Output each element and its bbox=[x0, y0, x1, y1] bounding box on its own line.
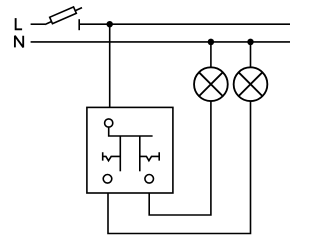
node N junction 1 bbox=[208, 39, 215, 46]
node L junction bbox=[107, 21, 113, 27]
wire N bus bbox=[31, 41, 290, 43]
switch S1 contact 2 bbox=[140, 152, 159, 161]
switch S1 blade 2 bbox=[139, 136, 141, 171]
lamp E1 bbox=[194, 67, 228, 101]
terminal S1 output 2 bbox=[145, 175, 154, 184]
switch S1 contact 1 bbox=[103, 152, 121, 161]
terminal S1 input bbox=[105, 119, 113, 127]
fuse F1 fixed contact bbox=[78, 19, 80, 30]
switch S1 blade 1 bbox=[119, 136, 121, 171]
label L bbox=[16, 18, 22, 29]
terminal S1 output 1 bbox=[103, 175, 112, 184]
switch S1 enclosure bbox=[87, 107, 173, 193]
wire L bus bbox=[79, 23, 290, 25]
wire L stub bbox=[31, 23, 45, 25]
node N junction 2 bbox=[247, 39, 254, 46]
label N bbox=[15, 36, 23, 48]
wire N to lamp E1 bbox=[210, 42, 212, 68]
wire L feed to switch bbox=[109, 24, 111, 107]
fuse F1 body bbox=[50, 7, 77, 24]
wire S1 common bar bbox=[109, 127, 153, 136]
wire switch output 2 to lamp E1 bbox=[149, 101, 211, 215]
wire N to lamp E2 bbox=[250, 42, 252, 68]
wire switch output 1 to lamp E2 bbox=[108, 101, 251, 233]
lamp E2 bbox=[234, 67, 268, 101]
fuse F1 blade bbox=[45, 8, 82, 25]
